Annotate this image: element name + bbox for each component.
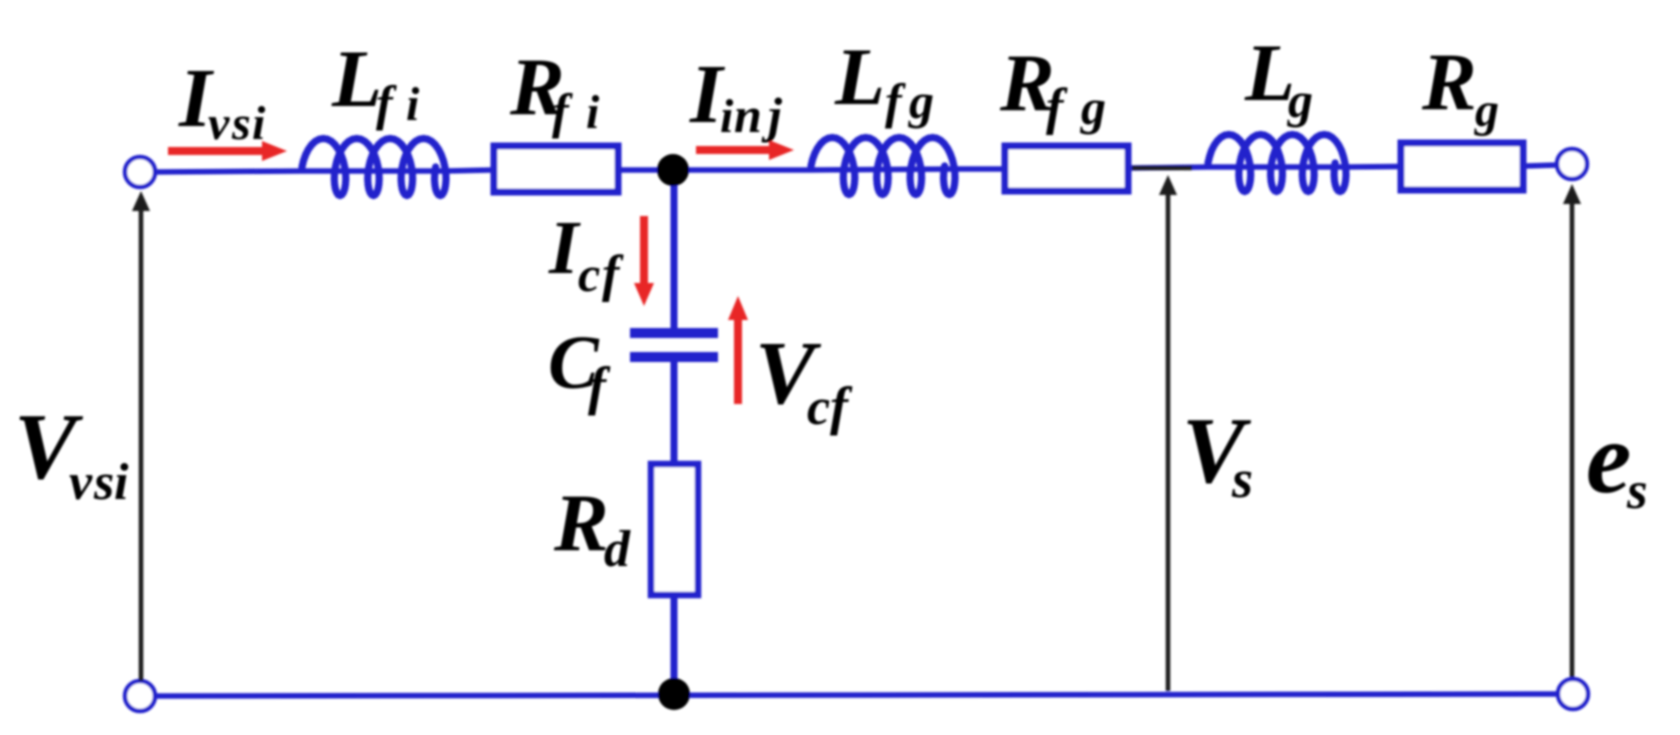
svg-text:c: c bbox=[578, 246, 600, 302]
capacitor Cf bottom plate bbox=[630, 352, 718, 362]
svg-text:f: f bbox=[376, 75, 397, 131]
resistor Rfg bbox=[1005, 146, 1128, 191]
inductor Lfi bbox=[302, 139, 446, 196]
svg-text:e: e bbox=[1586, 402, 1631, 515]
terminal bottom-left bbox=[125, 681, 155, 711]
svg-text:I: I bbox=[548, 206, 581, 290]
svg-text:g: g bbox=[1474, 84, 1499, 137]
svg-text:s: s bbox=[231, 97, 251, 150]
svg-text:d: d bbox=[604, 521, 631, 578]
svg-text:i: i bbox=[252, 97, 266, 150]
svg-text:c: c bbox=[807, 379, 830, 436]
svg-text:v: v bbox=[69, 454, 93, 511]
inductor Lg bbox=[1208, 135, 1346, 192]
capacitor Cf top plate bbox=[630, 328, 718, 338]
wire top rail bbox=[156, 165, 1557, 172]
svg-text:L: L bbox=[834, 31, 885, 122]
svg-text:f: f bbox=[830, 376, 853, 436]
svg-text:R: R bbox=[553, 477, 609, 568]
wire capacitor branch lower bbox=[671, 358, 678, 694]
svg-text:s: s bbox=[1231, 449, 1253, 509]
svg-text:g: g bbox=[1287, 72, 1313, 128]
svg-text:v: v bbox=[208, 97, 230, 150]
svg-text:g: g bbox=[1080, 79, 1106, 135]
svg-text:f: f bbox=[588, 356, 611, 416]
arrow Vvsi (black, up) bbox=[139, 209, 144, 681]
terminal top-right bbox=[1557, 149, 1587, 179]
wire capacitor branch upper bbox=[671, 170, 678, 330]
arrow Vs (black, up) bbox=[1166, 192, 1171, 691]
arrow es (black, up) bbox=[1570, 201, 1575, 677]
svg-text:f: f bbox=[552, 83, 573, 139]
inductor Lfg bbox=[811, 138, 955, 195]
svg-text:g: g bbox=[908, 73, 934, 129]
arrow Iinj (red, right) bbox=[696, 146, 773, 154]
svg-text:L: L bbox=[331, 33, 382, 124]
svg-text:f: f bbox=[885, 73, 906, 129]
svg-text:n: n bbox=[734, 87, 762, 143]
svg-text:i: i bbox=[720, 90, 734, 143]
svg-text:i: i bbox=[114, 454, 129, 511]
svg-text:i: i bbox=[406, 78, 420, 131]
svg-text:R: R bbox=[1421, 36, 1477, 127]
svg-text:s: s bbox=[1626, 462, 1648, 520]
svg-text:i: i bbox=[586, 86, 600, 139]
arrow Icf (red, down) bbox=[640, 216, 648, 286]
svg-text:j: j bbox=[761, 87, 783, 143]
terminal top-left bbox=[125, 157, 155, 187]
node A (injection node) bbox=[657, 154, 689, 186]
svg-text:f: f bbox=[1046, 79, 1068, 136]
terminal bottom-right bbox=[1558, 679, 1588, 709]
node B (bottom junction) bbox=[658, 678, 690, 710]
svg-text:f: f bbox=[602, 246, 624, 303]
wire bottom rail bbox=[156, 694, 1557, 696]
resistor Rfi bbox=[494, 146, 618, 192]
arrow Vcf (red, up) bbox=[734, 317, 742, 404]
resistor Rd bbox=[651, 464, 698, 595]
svg-text:s: s bbox=[93, 454, 114, 511]
resistor Rg bbox=[1401, 143, 1523, 190]
wire black segment after Rfg bbox=[1132, 166, 1192, 171]
arrow Ivsi (red, right) bbox=[168, 147, 266, 155]
